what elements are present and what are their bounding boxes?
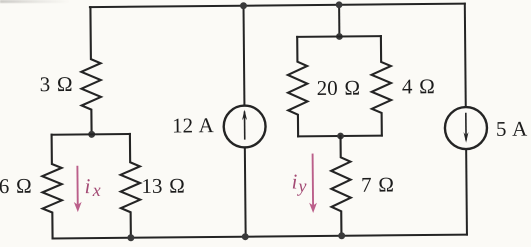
current source 12A circle	[224, 105, 266, 147]
svg-text:7 Ω: 7 Ω	[361, 172, 394, 196]
resistor R 3ohm branch (left, with leads)	[81, 7, 102, 134]
node stub at box top	[336, 33, 343, 40]
wire 5A branch lower	[465, 149, 468, 234]
current source 5A circle	[445, 107, 487, 149]
wire 12A branch upper	[243, 6, 246, 106]
wire 5A branch upper	[464, 4, 467, 107]
svg-text:12 A: 12 A	[172, 113, 215, 137]
svg-text:13 Ω: 13 Ω	[141, 174, 185, 198]
svg-text:ix: ix	[84, 174, 100, 200]
resistor R 7ohm branch	[331, 136, 351, 236]
wire stub from top rail to parallel box	[338, 5, 340, 37]
node 12A branch at top rail	[240, 2, 247, 9]
node 12A branch at bottom rail	[242, 233, 249, 240]
wire bottom rail	[53, 235, 467, 239]
svg-text:3 Ω: 3 Ω	[40, 72, 73, 96]
svg-text:5 A: 5 A	[496, 117, 528, 141]
current arrow iy (pink, down)	[309, 154, 317, 213]
resistor R 13ohm branch	[120, 134, 140, 238]
node 7ohm at bottom rail	[338, 232, 345, 239]
wire box bottom rail	[298, 135, 382, 138]
current arrow ix (pink, down)	[73, 166, 81, 212]
node stub at top rail	[336, 1, 343, 8]
wire mid rail (top of 6/13 parallel pair)	[52, 133, 130, 136]
svg-text:4 Ω: 4 Ω	[402, 74, 435, 98]
wire 12A branch lower	[244, 147, 247, 236]
svg-text:iy: iy	[291, 169, 306, 196]
node junction of 3ohm and mid rail	[88, 131, 95, 138]
node box bottom	[337, 133, 344, 140]
resistor R 4ohm branch	[371, 36, 391, 136]
svg-text:6 Ω: 6 Ω	[0, 174, 32, 198]
current source 5A arrow (down)	[465, 114, 467, 140]
wire top rail	[90, 4, 465, 8]
resistor R 6ohm branch	[42, 135, 62, 239]
svg-text:20 Ω: 20 Ω	[317, 76, 361, 100]
scan smudge (decorative)	[0, 0, 70, 3]
wire box top rail	[297, 35, 381, 38]
node 13ohm at bottom rail	[127, 234, 134, 241]
resistor R 20ohm branch	[287, 37, 307, 137]
current source 12A arrow (up)	[243, 112, 245, 139]
